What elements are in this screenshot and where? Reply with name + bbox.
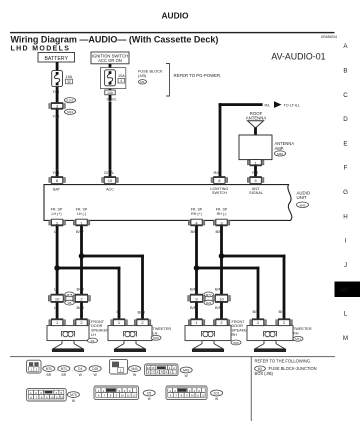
audio unit box [44, 185, 292, 221]
connector E105 oval [64, 98, 75, 103]
header rule [10, 32, 335, 33]
svg-text:D21: D21 [206, 301, 212, 305]
bracket to PG-POWER [166, 64, 170, 97]
svg-text:10: 10 [50, 395, 54, 399]
branch wire B/R to tweeter RH plus [197, 267, 260, 270]
connector face M75 12pin [27, 389, 67, 401]
svg-text:D4: D4 [91, 339, 95, 343]
connector pin 1 tweeter RH [250, 319, 266, 326]
svg-text:ANTENNA: ANTENNA [246, 116, 267, 121]
svg-text:LH: LH [153, 331, 158, 335]
svg-text:32: 32 [67, 80, 71, 84]
svg-text:M71: M71 [61, 367, 67, 371]
svg-text:M75: M75 [67, 293, 73, 297]
svg-text:W: W [94, 373, 98, 377]
svg-text:SPEAKER: SPEAKER [91, 329, 109, 333]
wire L vertical LH [56, 226, 59, 295]
connector M13 oval [64, 109, 75, 114]
svg-text:ACC OR ON: ACC OR ON [98, 58, 122, 63]
right margin index letters [343, 43, 349, 342]
svg-text:BR: BR [47, 373, 52, 377]
svg-text:FRONT: FRONT [232, 320, 246, 324]
svg-text:BAT: BAT [53, 187, 61, 191]
svg-text:AV-AUDIO-01: AV-AUDIO-01 [271, 52, 325, 62]
svg-text:M43: M43 [300, 203, 306, 207]
svg-text:ACC: ACC [106, 187, 114, 191]
svg-text:LHD MODELS: LHD MODELS [11, 46, 71, 53]
ignition switch box [91, 52, 129, 64]
svg-text:D25: D25 [92, 367, 98, 371]
svg-text:W: W [185, 374, 189, 378]
connector pin 14A [105, 89, 115, 101]
connector pin 1 door speaker LH [49, 319, 66, 326]
svg-text:W: W [133, 373, 137, 377]
svg-text:M70: M70 [46, 367, 52, 371]
connector pin 1 tweeter LH [111, 319, 128, 326]
tweeter RH box [247, 326, 293, 341]
connector pin 3 FR SP RH- [213, 219, 230, 226]
svg-text:M75: M75 [70, 393, 76, 397]
svg-text:B/R: B/R [215, 287, 222, 292]
wire B/R to door speaker RH [195, 302, 198, 319]
svg-text:M71: M71 [295, 337, 301, 341]
svg-text:RH: RH [232, 333, 238, 337]
svg-text:M40: M40 [131, 367, 137, 371]
svg-text:BATTERY: BATTERY [44, 56, 68, 62]
connector M71 oval [293, 336, 303, 341]
svg-text:D4: D4 [78, 367, 82, 371]
front door speaker RH box [185, 326, 231, 341]
connector face D21 12pin [166, 386, 207, 399]
branch wire B/W to tweeter LH [82, 255, 144, 258]
svg-text:R/L: R/L [265, 104, 271, 108]
svg-text:TWEETER: TWEETER [153, 327, 172, 331]
inline connector pin 9 (RH B/R) [188, 294, 206, 302]
svg-text:BOX (J/B): BOX (J/B) [255, 371, 274, 376]
svg-text:L: L [344, 311, 348, 318]
connector M75 oval footer [67, 392, 79, 398]
svg-text:Y/G: Y/G [53, 89, 60, 94]
wire B/R to door speaker RH minus [220, 302, 223, 319]
connector M71 oval footer [58, 366, 70, 372]
branch wire L to tweeter LH [57, 267, 120, 270]
svg-text:M13: M13 [67, 110, 73, 114]
connector pin 4 FR SP RH+ [188, 219, 205, 226]
svg-text:DOOR: DOOR [91, 324, 103, 328]
svg-text:B/R: B/R [190, 287, 197, 292]
svg-text:14A: 14A [107, 91, 114, 95]
svg-text:G/Y/L: G/Y/L [107, 97, 118, 102]
tweeter LH cone [115, 341, 145, 349]
svg-text:AV: AV [340, 287, 349, 294]
svg-text:D25: D25 [233, 341, 239, 345]
speaker LH coil [62, 332, 75, 337]
svg-text:15A: 15A [66, 75, 73, 79]
svg-text:J: J [344, 262, 347, 269]
connector M77 oval [204, 292, 214, 297]
svg-text:DOOR: DOOR [232, 324, 244, 328]
connector pin 2 tweeter LH [134, 319, 151, 326]
svg-text:M: M [343, 335, 348, 342]
svg-text:10: 10 [219, 296, 224, 301]
front door speaker LH box [47, 326, 89, 341]
BAT pin stub [56, 169, 59, 177]
svg-text:Wiring Diagram —AUDIO— (With C: Wiring Diagram —AUDIO— (With Cassette De… [11, 35, 219, 45]
connector D5 oval footer [143, 390, 155, 396]
svg-text:TO LT-ILL: TO LT-ILL [284, 104, 301, 108]
svg-text:F: F [344, 165, 348, 172]
connector pin 2 FR SP LH+ [49, 219, 66, 226]
antenna amp box [239, 135, 272, 160]
svg-text:A: A [343, 43, 348, 50]
wire G/Y/L long run [109, 101, 112, 169]
battery box [38, 53, 75, 63]
svg-text:E105: E105 [66, 99, 73, 103]
svg-text:W: W [79, 373, 83, 377]
connector D21 oval [204, 300, 214, 305]
connector D25 oval footer [89, 366, 101, 372]
fuse 15A [52, 71, 73, 87]
svg-text:10: 10 [108, 178, 113, 183]
svg-text:REFER TO THE FOLLOWING.: REFER TO THE FOLLOWING. [255, 359, 312, 364]
svg-text:AUDIO: AUDIO [162, 11, 189, 21]
svg-text:11: 11 [196, 394, 199, 398]
svg-text:11: 11 [56, 395, 59, 399]
svg-text:RH: RH [293, 331, 299, 335]
svg-text:W: W [148, 397, 152, 401]
svg-text:SWITCH: SWITCH [212, 191, 227, 195]
wire R/L vertical run [219, 103, 222, 177]
svg-text:4: 4 [120, 79, 122, 83]
connector pin 2 tweeter RH [276, 319, 293, 326]
connector pin 10 ACC [102, 177, 119, 184]
svg-text:LH (+): LH (+) [51, 212, 61, 216]
connector face audio unit 10pin [145, 364, 178, 376]
footer separator line [10, 355, 335, 358]
ACC pin stub [109, 169, 112, 177]
svg-text:M40: M40 [277, 152, 283, 156]
connector D21 oval footer [211, 390, 223, 396]
svg-text:M1: M1 [140, 80, 144, 84]
speaker LH cone [53, 341, 83, 349]
connector pin 2 door speaker LH [73, 319, 90, 326]
svg-text:E: E [343, 140, 347, 147]
connector M75 oval [65, 292, 75, 297]
wire Y/G long run [56, 117, 59, 169]
svg-text:D5: D5 [68, 301, 72, 305]
wire R/L horizontal to LT-ILL [219, 103, 263, 106]
connector M70 oval [151, 335, 161, 340]
wire battery to fuse [56, 62, 59, 71]
inline connector pin 10 (RH B/R minus) [213, 294, 231, 302]
connector pin 2 door speaker RH [213, 319, 230, 326]
connector M1 oval [139, 80, 147, 84]
wire B/R vertical RH plus [195, 226, 198, 295]
svg-text:12: 12 [60, 395, 64, 399]
wire B/R vertical RH minus [220, 226, 223, 295]
svg-text:D: D [343, 116, 348, 123]
connector D4 oval footer [74, 366, 86, 372]
svg-text:GRA54E04: GRA54E04 [321, 35, 337, 39]
fuse block outline [100, 68, 125, 89]
connector pin 1 antenna amp [247, 160, 264, 166]
connector pin 1 FR SP LH- [73, 219, 90, 226]
svg-text:D5: D5 [147, 391, 151, 395]
svg-text:10: 10 [121, 394, 125, 398]
svg-text:TWEETER: TWEETER [293, 327, 312, 331]
connector M43 oval footer [180, 367, 192, 373]
svg-text::FUSE BLOCK-JUNCTION: :FUSE BLOCK-JUNCTION [268, 366, 317, 371]
junction dot B/R plus [194, 265, 200, 271]
svg-text:M77: M77 [206, 293, 212, 297]
connector M70 oval footer [43, 366, 55, 372]
tweeter LH coil [124, 332, 137, 337]
connector D5 oval [65, 300, 75, 305]
svg-text:W: W [72, 399, 76, 403]
connector M40 oval [274, 151, 285, 156]
svg-text:D21: D21 [214, 391, 220, 395]
AV section tab [335, 282, 360, 298]
tweeter RH cone [255, 341, 285, 349]
connector D4 oval [88, 338, 98, 343]
svg-text:M43: M43 [183, 368, 189, 372]
connector M43 oval [297, 202, 309, 208]
svg-text:LH: LH [91, 333, 96, 337]
svg-text:B/R: B/R [253, 309, 260, 314]
connector pin 8 lighting switch [211, 177, 228, 184]
svg-text:B/W: B/W [138, 309, 146, 314]
connector pin 5 ant signal [247, 177, 264, 184]
svg-text:I: I [345, 238, 347, 245]
svg-text:B/R: B/R [279, 309, 286, 314]
inline connector pin 10 (LH L) [48, 294, 66, 302]
connector pin 6 BAT [49, 177, 66, 184]
svg-text:B/W: B/W [77, 287, 85, 292]
wire B/W to door speaker LH [80, 302, 83, 319]
svg-text:RH (-): RH (-) [217, 212, 227, 216]
svg-text:UNIT: UNIT [297, 195, 307, 200]
svg-text:W: W [215, 397, 219, 401]
connector M40 oval footer [129, 366, 141, 372]
junction dot B/R minus [219, 253, 225, 259]
svg-text:RH (+): RH (+) [191, 212, 202, 216]
joint connector 3 [49, 95, 66, 117]
svg-text:SIGNAL: SIGNAL [249, 191, 263, 195]
wire L to door speaker LH [56, 302, 59, 319]
connector M1 oval footer [255, 366, 266, 371]
connector D25 oval [231, 340, 241, 345]
wire ignition to fuse block [109, 64, 112, 69]
svg-text:Y/R: Y/R [252, 170, 259, 175]
inline connector pin 2 (LH B/W) [73, 294, 91, 302]
svg-text:12: 12 [132, 394, 136, 398]
svg-text:LH (-): LH (-) [77, 212, 86, 216]
wire Y/G label (upper) [56, 87, 59, 95]
arrow TO LT-ILL [274, 101, 282, 108]
junction dot L [54, 265, 60, 271]
svg-text:12: 12 [201, 394, 205, 398]
svg-text:C: C [343, 92, 348, 99]
wire B/W vertical LH [80, 226, 83, 295]
svg-text:H: H [343, 213, 347, 220]
connector face D5 12pin [94, 386, 139, 399]
branch wire B/R to tweeter RH [222, 255, 286, 258]
speaker RH coil [202, 332, 215, 337]
svg-text:10A: 10A [118, 74, 125, 78]
svg-text:,: , [72, 368, 73, 372]
speaker RH cone [193, 341, 223, 349]
junction dot B/W [79, 253, 85, 259]
connector pin 1 door speaker RH [188, 319, 205, 326]
svg-text:10: 10 [55, 296, 60, 301]
svg-text:G: G [343, 189, 348, 196]
svg-text:AMP.: AMP. [275, 146, 284, 151]
connector face antenna amp [110, 359, 128, 374]
connector face tweeter 2pin [27, 360, 41, 373]
svg-text:FRONT: FRONT [91, 320, 105, 324]
svg-text:REFER TO PG-POWER.: REFER TO PG-POWER. [174, 73, 222, 78]
svg-text:BR: BR [62, 373, 67, 377]
svg-text:10: 10 [191, 394, 195, 398]
refer box divider [250, 356, 253, 421]
wire Y/R [254, 166, 257, 177]
fuse 10A [105, 70, 126, 86]
svg-text:11: 11 [127, 394, 130, 398]
svg-text:R/L: R/L [214, 170, 221, 175]
svg-text:M70: M70 [153, 336, 159, 340]
tweeter RH coil [264, 332, 277, 337]
svg-text:(J/B): (J/B) [138, 73, 147, 78]
svg-text:B: B [343, 68, 347, 75]
antenna symbol [248, 121, 264, 128]
tweeter LH box [108, 326, 152, 341]
